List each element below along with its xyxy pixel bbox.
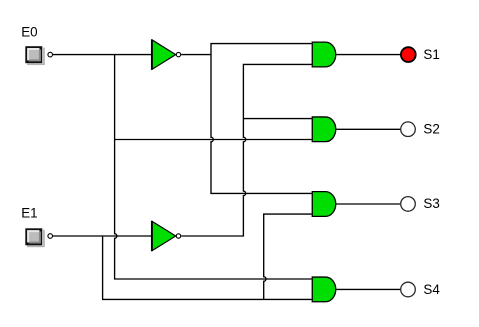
hop U5 branch vertical over E0 wire at (263.7,279) xyxy=(264,276,266,283)
LED S4 (off) xyxy=(401,282,416,297)
hop E0 vertical over E1 wire at (114.6,236) xyxy=(115,233,117,240)
input button E1 xyxy=(27,230,45,248)
connector pin of E0 xyxy=(48,52,53,57)
AND gate U4 xyxy=(312,117,336,142)
LED S2 (off) xyxy=(401,122,416,137)
AND gate U3 xyxy=(312,42,336,67)
wire E0 button to inverter U1 xyxy=(53,54,152,56)
inverter U2 xyxy=(152,221,181,251)
svg-text:S2: S2 xyxy=(423,122,439,137)
wire E1 down then right to gate U6 bottom input y=299.4 xyxy=(103,236,312,299)
wire inverter U2 output, up then right to gate U3 bottom input y=64.4 xyxy=(181,197,243,236)
LED S1 (on, red) xyxy=(401,47,416,62)
wire inverter U1 output xyxy=(181,54,211,56)
LED S3 (off) xyxy=(401,197,416,212)
hop /E1 vertical over wire at (243.4,193.4) xyxy=(243,190,245,197)
wire E0 to gate U5 lower input y=139.5 xyxy=(115,139,312,141)
AND gate U6 xyxy=(312,277,336,302)
connector pin of E1 xyxy=(48,234,53,239)
wire gate U3 output to LED S1 xyxy=(336,54,401,56)
wire E0 down then right to gate U6 top input y=279 xyxy=(115,240,312,280)
wire up then right into gate U5 bottom input y=214.1 xyxy=(264,214,312,275)
wire gate U4 output to LED S2 xyxy=(336,128,401,130)
hop /E1 vertical over wire at (243.4,139.5) xyxy=(243,136,245,143)
wire /E0 up then right to gate U3 top input y=43.6 xyxy=(211,44,312,136)
bubble of U2 xyxy=(176,234,180,238)
wire E1 button to inverter U2 xyxy=(53,235,152,237)
inverter U1 xyxy=(152,39,181,69)
wire /E1 to gate U4 top input y=118.6 xyxy=(243,118,311,120)
hop /E0 vertical over wire at (211,139.5) xyxy=(211,136,213,143)
AND gate U5 xyxy=(312,192,335,217)
svg-text:S4: S4 xyxy=(423,282,440,297)
svg-text:S3: S3 xyxy=(423,196,439,211)
bubble of U1 xyxy=(176,52,180,56)
svg-text:S1: S1 xyxy=(423,47,439,62)
wire /E1 vertical x=243.4 xyxy=(242,143,244,190)
wire /E1 up then right to gate U3 bottom input y=64.4 xyxy=(243,64,311,136)
svg-text:E0: E0 xyxy=(21,24,37,39)
wire gate U5 output to LED S3 xyxy=(336,203,401,205)
input button E0 xyxy=(27,48,45,66)
wire gate U6 output to LED S4 xyxy=(336,288,401,290)
wire E0 branch vertical x=114.6 xyxy=(114,55,116,233)
wire /E0 down then right to gate U5 top input y=193.4 xyxy=(211,143,312,193)
svg-text:E1: E1 xyxy=(21,205,37,220)
wire E1 branch up to gate U5 bottom input, vertical x=263.7 xyxy=(263,283,265,300)
